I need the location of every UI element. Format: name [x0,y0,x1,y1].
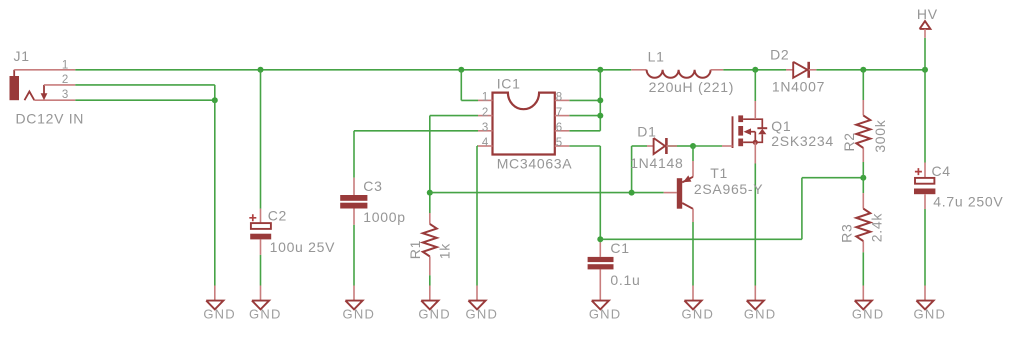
wire: IC1 pin5 across [569,145,600,147]
capacitor C3 bottom lead [353,209,355,225]
pin number IC1-8 [556,92,563,104]
wire: C1 bottom to GND [599,269,601,285]
value C4 4.7u 250V [933,194,1003,210]
ground GND (Q1) [747,286,764,310]
label GND (C1) [589,307,622,322]
junction: pin8 tie [597,97,603,103]
pin number IC1-2 [482,107,489,119]
wire: J1 ground drop [214,100,216,285]
svg-text:0.1u: 0.1u [610,272,640,288]
ground GND (T1) [684,286,701,310]
wire: D1 anode stub [632,145,647,147]
label GND (C2) [249,307,282,322]
capacitor C1 plates [588,257,614,270]
power HV symbol [920,21,931,38]
ground GND (C4) [916,286,933,310]
transistor Q1 source lead [754,142,756,163]
transistor T1 emitter [682,161,693,182]
wire: pin2 down to R1 top [429,116,431,213]
svg-text:C1: C1 [610,240,629,256]
pin number IC1-7 [556,107,563,119]
value C1 0.1u [610,272,640,288]
svg-text:Q1: Q1 [771,118,791,134]
wire: gate node down to T1 emitter [692,146,694,161]
capacitor C2 positive plate [251,223,271,229]
label J1 [14,48,30,64]
wire: VIN +12V top rail from J1 pin1 to L1 [75,69,631,71]
label C2 [268,207,287,223]
capacitor C2 plus sign [249,214,256,221]
capacitor C2 bottom lead [260,239,262,254]
value Q1 2SK3234 [771,133,834,149]
capacitor C4 plus sign [915,168,922,175]
pin IC1-3 [478,130,493,132]
svg-text:D1: D1 [637,123,656,139]
svg-text:8: 8 [556,92,563,104]
wire: gate node to Q1 gate [693,145,722,147]
label T1 [710,165,728,181]
pin number IC1-4 [482,137,489,149]
svg-text:100u 25V: 100u 25V [270,239,336,255]
wire: feedback line to R2/R3 [600,178,863,240]
wire: rail to Q1 drain [754,70,756,101]
junction: gate node [690,143,696,149]
capacitor C2 top lead [260,209,262,223]
connector J1 switch arm [41,85,48,100]
pin IC1-1 [478,99,493,101]
svg-text:R3: R3 [838,224,854,243]
svg-text:GND: GND [914,307,947,322]
svg-text:1: 1 [482,92,489,104]
pin IC1-4 [478,145,493,147]
resistor R2 body [856,115,870,147]
junction: D1 anode at T1 base [629,190,635,196]
wire: IC1 pin2 across [430,115,478,117]
svg-text:GND: GND [682,307,715,322]
label R3 [838,224,854,243]
wire: IC1 pin3 to C3 [354,131,478,178]
label GND (IC1 pin4) [466,307,499,322]
diode D1 anode lead [647,145,654,147]
label GND (C3) [343,307,376,322]
svg-text:2: 2 [482,107,489,119]
svg-text:1N4148: 1N4148 [630,155,683,171]
junction: rail at IC1 pins 8/7/6 drop [597,67,603,73]
pin number IC1-1 [482,92,489,104]
resistor R1 body [423,224,437,257]
connector J1 sleeve [10,70,20,100]
wire: R2 to node [862,162,864,178]
svg-text:5: 5 [556,137,563,149]
junction: C1 top / feedback node [597,236,603,242]
capacitor C4 negative plate [914,189,935,195]
value L1 220uH (221) [649,79,735,95]
capacitor C4 top lead [924,163,926,178]
junction: J1 pins 2-3 tie [212,97,218,103]
junction: rail at IC1 pin1 drop [458,67,464,73]
svg-text:GND: GND [203,307,236,322]
wire: HV terminal drop [924,38,926,70]
svg-text:GND: GND [466,307,499,322]
junction: R2/R3 divider node [860,175,866,181]
transistor Q1 drain lead [754,101,756,119]
value D2 1N4007 [772,79,825,95]
diode D2 body [793,62,809,78]
svg-text:1: 1 [62,59,69,71]
pin number J1-3 [62,89,69,101]
ground GND (C2) [252,286,269,310]
capacitor C2 negative plate [250,234,271,240]
junction: HV rail at C4/HV [922,67,928,73]
svg-text:7: 7 [556,107,563,119]
pin number J1-1 [62,59,69,71]
svg-text:T1: T1 [710,165,728,181]
svg-text:C4: C4 [932,163,951,179]
inductor L1 left lead [631,69,646,71]
inductor L1 right lead [711,69,724,71]
ground GND (R1) [421,286,438,310]
pin number IC1-3 [482,122,489,134]
wire: D1 anode to base node [631,146,633,193]
pin number IC1-6 [556,122,563,134]
svg-text:3: 3 [482,122,489,134]
svg-text:4.7u 250V: 4.7u 250V [933,194,1003,210]
svg-text:4: 4 [482,137,489,149]
wire: C3 bottom to GND [353,225,355,286]
pin number J1-2 [62,74,69,86]
ground GND (C3) [345,286,362,310]
transistor Q1 drain link [743,119,762,128]
value MC34063A [497,156,573,172]
wire: Q1 source to GND [754,164,756,286]
value T1 2SA965-Y [694,181,763,197]
svg-text:MC34063A: MC34063A [497,156,573,172]
svg-text:DC12V IN: DC12V IN [16,111,85,127]
value R3 2.4k [869,213,885,243]
ground GND (R3) [855,286,872,310]
value R2 300k [872,119,888,152]
diode D2 anode lead [786,69,793,71]
label C3 [363,178,382,194]
transistor T1 base lead [664,192,677,194]
wire: J1 pin2 to GND net [75,85,215,100]
svg-text:D2: D2 [770,47,789,63]
diode D2 cathode lead [809,69,817,71]
label IC1 [497,76,521,92]
wire: rail down to IC1 pin1 [461,70,478,101]
label GND (R3) [852,307,885,322]
svg-text:HV: HV [917,6,938,22]
wire: C2 to GND [260,255,262,286]
svg-text:1000p: 1000p [363,209,405,225]
label L1 [648,48,665,64]
wire: C4 to GND [924,209,926,286]
junction: rail at Q1 drain [752,67,758,73]
value R1 1k [437,243,453,259]
op-amp IC1 body [493,93,555,155]
svg-text:C2: C2 [268,207,287,223]
value C3 1000p [363,209,405,225]
svg-text:3: 3 [62,89,69,101]
wire: T1 collector to GND [692,222,694,286]
diode D1 cathode lead [666,145,677,147]
resistor R3 body [856,209,870,242]
label GND (Q1) [744,307,777,322]
pin IC1-7 [555,115,570,117]
svg-text:2SK3234: 2SK3234 [771,133,834,149]
resistor R3 leads [862,193,864,252]
label GND (C4) [914,307,947,322]
connector J1 pin 2 lead [44,84,75,86]
pin IC1-5 [555,145,570,147]
transistor T1 body bar [677,178,682,209]
svg-text:2SA965-Y: 2SA965-Y [694,181,763,197]
diode D1 body [654,138,667,154]
svg-text:IC1: IC1 [497,76,521,92]
label C4 [932,163,951,179]
svg-text:L1: L1 [648,48,665,64]
wire: rail to R2 [862,70,864,100]
svg-text:C3: C3 [363,178,382,194]
svg-text:1k: 1k [437,243,453,259]
ground GND (IC1 pin4) [468,286,485,310]
svg-text:1N4007: 1N4007 [772,79,825,95]
value D1 1N4148 [630,155,683,171]
capacitor C4 bottom lead [924,194,926,209]
value DC12V IN [16,111,85,127]
wire: rail down to IC1 pins 8/7/6 [569,70,600,131]
wire: rail down to C4 [924,70,926,163]
svg-text:R2: R2 [841,132,857,151]
svg-text:2: 2 [62,74,69,86]
svg-text:6: 6 [556,122,563,134]
pin IC1-8 [555,99,570,101]
junction: pin7 tie [597,113,603,119]
wire: J1 pin3 to GND net [75,99,215,101]
resistor R1 leads [429,213,431,275]
svg-text:J1: J1 [14,48,30,64]
label C1 [610,240,629,256]
label R2 [841,132,857,151]
transistor Q1 body diode [755,128,767,142]
junction: R1 top / base node [427,190,433,196]
transistor Q1 gate lead [722,145,733,147]
wire: node to R3 [862,178,864,193]
wire: R3 to GND [862,252,864,285]
transistor Q1 bulk arrow [744,128,756,142]
pin number IC1-5 [556,137,563,149]
resistor R2 leads [862,100,864,162]
label Q1 [771,118,791,134]
wire: rail down to C2 [260,70,262,209]
connector J1 pin 1 lead [14,69,75,71]
inductor L1 body [647,70,711,78]
wire: D1 cathode to gate node [668,145,693,147]
connector J1 tip contact [25,92,35,101]
ground GND (C1) [592,286,609,310]
transistor Q1 channel bars [738,115,743,146]
junction: HV rail at R2 [860,67,866,73]
value C2 100u 25V [270,239,336,255]
label GND (T1) [682,307,715,322]
wire: base line to T1 [430,192,664,194]
wire: top rail L1 to D2 [723,69,786,71]
svg-text:GND: GND [418,307,451,322]
pin IC1-2 [478,115,493,117]
svg-text:R1: R1 [407,240,423,259]
ground GND (J1) [206,286,223,310]
wire: HV rail D2 cathode to HV terminal [816,69,925,71]
transistor Q1 gate line [732,116,734,148]
connector J1 pin 3 lead [34,99,75,101]
junction: rail at C2 [258,67,264,73]
svg-text:GND: GND [249,307,282,322]
svg-text:220uH (221): 220uH (221) [649,79,735,95]
label GND (J1) [203,307,236,322]
label D2 [770,47,789,63]
svg-text:GND: GND [589,307,622,322]
label D1 [637,123,656,139]
svg-text:GND: GND [852,307,885,322]
svg-text:300k: 300k [872,119,888,152]
wire: IC1 pin4 to GND [477,146,478,286]
transistor T1 collector [682,203,693,222]
wire: R1 bottom to GND [429,275,431,285]
svg-text:GND: GND [343,307,376,322]
label HV [917,6,938,22]
capacitor C4 positive plate [915,178,934,184]
label R1 [407,240,423,259]
capacitor C3 plates [340,195,367,209]
wire: pin5 down to C1 [599,146,601,242]
pin IC1-6 [555,130,570,132]
capacitor C3 top lead [353,178,355,195]
transistor Q1 source link [743,140,758,145]
svg-text:2.4k: 2.4k [869,213,885,243]
svg-text:GND: GND [744,307,777,322]
label GND (R1) [418,307,451,322]
capacitor C1 top lead [599,242,601,257]
